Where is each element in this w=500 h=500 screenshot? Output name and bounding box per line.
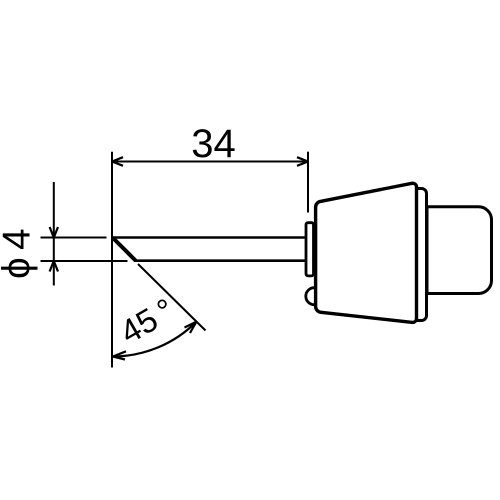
extension line phi4 top — [41, 237, 107, 239]
tip top edge — [112, 236, 306, 239]
svg-text:ϕ4: ϕ4 — [0, 221, 39, 279]
dimension line phi4 vertical — [53, 182, 55, 286]
arrowhead left of 34 dimension — [112, 157, 123, 166]
locating bump — [306, 288, 323, 305]
tip bevel 45 degrees — [113, 238, 136, 261]
arrowhead top of phi4 dimension — [50, 227, 58, 238]
svg-text:34: 34 — [191, 122, 236, 166]
extension line phi4 bottom — [41, 260, 128, 262]
collar — [306, 223, 314, 276]
angle arc 45 degrees — [113, 322, 196, 357]
rear cylinder — [427, 207, 492, 294]
arrowhead right of 34 dimension — [297, 157, 308, 166]
conical body — [316, 183, 417, 322]
arrowhead bottom of phi4 dimension — [50, 261, 58, 272]
flange — [412, 189, 427, 321]
arrowhead arc left — [113, 351, 126, 359]
extension line left (also 45-degree reference vertical) — [111, 152, 113, 368]
bevel extension line for angle — [138, 264, 206, 331]
extension line right of 34 dimension — [307, 152, 309, 213]
arrowhead arc right — [185, 322, 197, 333]
dimension line 34 — [113, 161, 307, 163]
tip bottom edge — [134, 259, 306, 262]
